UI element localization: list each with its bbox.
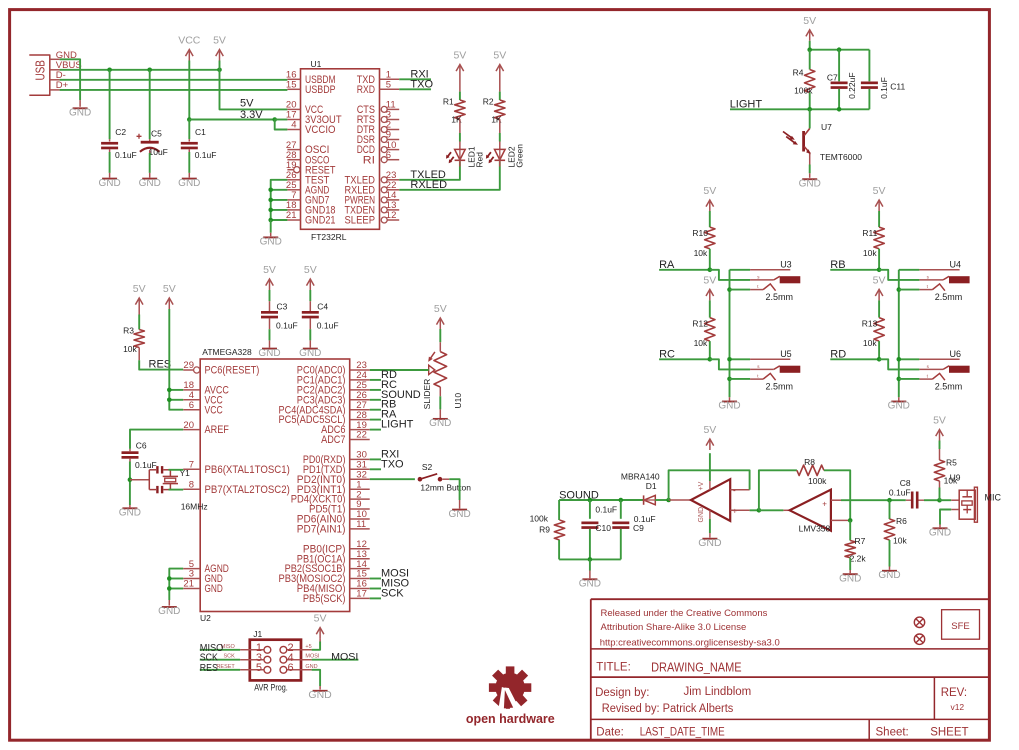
wire J1 RES	[200, 669, 240, 671]
power 5V VCC column	[168, 298, 170, 309]
svg-text:Red: Red	[475, 152, 485, 168]
svg-text:2.5mm: 2.5mm	[935, 292, 963, 302]
op-amp U8B LMV358	[790, 490, 831, 531]
svg-text:SLEEP: SLEEP	[345, 215, 376, 227]
svg-text:Released under the Creative Co: Released under the Creative Commons	[601, 608, 768, 619]
wire collector	[809, 109, 811, 128]
wire J1 +5	[312, 642, 321, 650]
wire LED2 cathode	[499, 160, 501, 166]
U2 pin 20 AREF	[183, 429, 200, 431]
svg-text:10k: 10k	[694, 248, 708, 258]
U1 pin 22 RXLED	[381, 187, 387, 193]
U1 pin 14 PWREN	[381, 197, 387, 203]
power 5V above C3	[269, 279, 271, 290]
J1 pin 1 MISO	[240, 649, 264, 651]
svg-text:R8: R8	[804, 457, 815, 467]
U1 pin 26 TEST	[287, 179, 300, 181]
wire C7 bottom	[838, 89, 840, 109]
wire sw RC	[730, 378, 751, 380]
U2 pin 23 PC0(ADC0)	[350, 369, 370, 371]
power 5V opamp1	[709, 439, 711, 450]
U1 pin 23 TXLED	[381, 177, 387, 183]
svg-text:17: 17	[356, 589, 367, 600]
svg-text:5V: 5V	[873, 185, 886, 197]
wire C7 top	[838, 50, 840, 82]
wire 5V arrow to VBUS	[219, 61, 221, 70]
svg-text:3.3V: 3.3V	[240, 109, 263, 121]
ground under S2	[459, 500, 461, 509]
wire AREF	[130, 430, 183, 449]
junction GND3	[167, 576, 172, 581]
svg-text:GND: GND	[799, 178, 821, 189]
svg-text:GND: GND	[579, 579, 601, 590]
circle-x marks	[914, 617, 924, 627]
svg-text:Sheet:: Sheet:	[876, 727, 909, 739]
wire 5V to FT232 VCC	[220, 70, 288, 110]
ground opamp1	[702, 538, 717, 540]
wire GND3	[169, 578, 183, 580]
ground under C3	[262, 348, 277, 350]
U1 pin 1 TXD	[380, 78, 400, 80]
svg-text:GND: GND	[119, 508, 141, 519]
wire R10 to RA	[709, 249, 711, 270]
svg-text:U3: U3	[780, 260, 792, 270]
svg-text:SCK: SCK	[381, 587, 404, 599]
resistor R8 100k	[797, 465, 824, 475]
wire PD2 to S2	[370, 478, 415, 480]
power VCC	[188, 50, 190, 61]
LED LED1 Red	[455, 149, 466, 159]
wire RB jack gnd verticals	[898, 270, 900, 397]
wire RB to jack tip	[879, 270, 919, 280]
svg-text:GND: GND	[308, 689, 332, 701]
U2 pin 6 VCC	[183, 409, 200, 411]
svg-text:0.1uF: 0.1uF	[195, 150, 217, 160]
svg-text:GND: GND	[158, 606, 180, 617]
ground jack column	[722, 401, 737, 403]
svg-text:Green: Green	[514, 144, 524, 168]
potentiometer U10 SLIDER	[434, 352, 447, 387]
U2 pin 24 PC1(ADC1)	[350, 379, 370, 381]
svg-text:GND: GND	[878, 570, 900, 581]
junction mic R5	[937, 498, 942, 503]
ground under C4	[303, 348, 318, 350]
resistor R12 10k	[705, 318, 715, 342]
connector J1 AVR Prog body	[250, 640, 301, 681]
svg-text:21: 21	[286, 210, 297, 221]
junction gnd RC sw	[727, 377, 732, 382]
svg-text:0.1uF: 0.1uF	[135, 460, 157, 470]
svg-text:Attribution Share-Alike 3.0 Li: Attribution Share-Alike 3.0 License	[601, 622, 747, 633]
svg-text:10k: 10k	[694, 338, 708, 348]
svg-text:ADC7: ADC7	[321, 434, 345, 446]
svg-text:VCCIO: VCCIO	[305, 124, 336, 136]
ground symbol under USB	[79, 100, 81, 107]
wire RA to jack tip	[710, 270, 750, 280]
svg-text:100k: 100k	[530, 514, 549, 524]
svg-text:VCC: VCC	[205, 404, 223, 416]
svg-text:LIGHT: LIGHT	[730, 99, 763, 111]
svg-text:10k: 10k	[863, 338, 877, 348]
wire to ground RC	[729, 397, 731, 400]
svg-text:5V: 5V	[434, 303, 447, 315]
U1 pin 2 DTR	[381, 127, 387, 133]
wire U1 AGND	[271, 189, 288, 191]
wire R12 to RC	[709, 341, 711, 359]
U1 pin 6 RI	[381, 157, 387, 163]
junction AVCC	[167, 388, 172, 393]
svg-text:29: 29	[183, 360, 194, 371]
wire J1 MOSI	[312, 659, 359, 661]
svg-text:5V: 5V	[314, 613, 327, 625]
svg-text:GND: GND	[698, 507, 705, 523]
junction gnd RD sw	[897, 377, 902, 382]
svg-text:2.2k: 2.2k	[850, 553, 867, 563]
svg-text:10uF: 10uF	[149, 147, 168, 157]
U1 pin 15 USBDP	[287, 88, 300, 90]
wire C1 to GND	[188, 149, 190, 152]
LED LED2 Green	[495, 149, 506, 159]
U1 pin 27 OSCI	[287, 149, 300, 151]
U2 pin 8 PB7(XTAL2TOSC2)	[183, 488, 200, 490]
U1 pin 20 VCC	[287, 108, 300, 110]
U5 sleeve barrel	[780, 366, 801, 373]
wire gnd rail sound	[559, 558, 621, 560]
capacitor C7	[831, 82, 848, 85]
wire AGND chain	[169, 569, 183, 600]
junction VBUS 5V	[217, 68, 222, 73]
capacitor C1	[181, 142, 198, 145]
wire opamp2 out	[759, 509, 784, 511]
svg-text:RES: RES	[200, 662, 218, 674]
wire C9 to rail	[620, 529, 622, 559]
svg-text:RES: RES	[149, 358, 172, 370]
svg-text:RXD: RXD	[357, 84, 375, 96]
svg-text:0.1uF: 0.1uF	[276, 320, 298, 330]
wire C2 to GND	[109, 149, 111, 152]
U2 pin 32 PD2(INT0)	[350, 478, 370, 480]
U1 pin 3 RTS	[381, 117, 387, 123]
U2 pin 30 PD0(RXD)	[350, 458, 370, 460]
U1 pin 12 SLEEP	[381, 217, 387, 223]
capacitor C5 polarized	[141, 141, 159, 144]
resistor R5 10k	[934, 460, 944, 481]
power 5V mic	[939, 430, 941, 441]
svg-text:21: 21	[183, 579, 194, 590]
wire sw RD	[899, 378, 920, 380]
wire net RA	[370, 419, 381, 421]
svg-text:Date:: Date:	[596, 727, 624, 739]
wire RA	[659, 269, 710, 271]
U1 pin 19 RESET	[287, 169, 293, 171]
wire SOUND to R9	[558, 500, 560, 520]
svg-text:DRAWING_NAME: DRAWING_NAME	[651, 660, 742, 674]
svg-text:GND: GND	[718, 401, 740, 412]
svg-text:R11: R11	[862, 228, 877, 238]
svg-text:GND: GND	[139, 178, 161, 189]
wire R4 bottom	[809, 93, 811, 110]
svg-text:TEMT6000: TEMT6000	[820, 152, 862, 162]
junction AGND	[268, 188, 273, 193]
U2 pin 18 AVCC	[183, 389, 200, 391]
wire 5V to R1	[459, 76, 461, 92]
junction LIGHT C7	[837, 107, 842, 112]
wire R3 red stub	[138, 348, 140, 361]
svg-text:22: 22	[356, 430, 367, 441]
wire C3 to gnd	[269, 318, 271, 329]
ground under C1	[182, 178, 197, 180]
U1 pin 18 GND18	[287, 209, 300, 211]
svg-text:5V: 5V	[803, 15, 816, 27]
resistor R11 10k	[874, 227, 884, 249]
svg-text:FT232RL: FT232RL	[311, 232, 347, 242]
wire J1 GND	[312, 670, 321, 686]
svg-text:LMV358: LMV358	[799, 524, 831, 534]
SFE logo box	[942, 610, 980, 640]
svg-text:5V: 5V	[163, 283, 176, 295]
svg-text:SHEET: SHEET	[930, 727, 968, 739]
wire VBUS rail	[60, 69, 220, 71]
connector USB	[29, 55, 50, 95]
svg-text:5V: 5V	[493, 50, 506, 62]
opamp1 gnd pin	[709, 510, 711, 519]
svg-text:LAST_DATE_TIME: LAST_DATE_TIME	[640, 727, 725, 739]
svg-text:R2: R2	[483, 97, 494, 107]
svg-text:D1: D1	[646, 481, 657, 491]
svg-text:2.5mm: 2.5mm	[766, 382, 794, 392]
svg-text:MIC: MIC	[985, 492, 1002, 502]
U1 pin 7 GND7	[287, 199, 300, 201]
junction gnd RD top	[897, 357, 902, 362]
wire R5 to mic	[939, 481, 941, 488]
svg-text:16MHz: 16MHz	[181, 502, 208, 512]
svg-text:R7: R7	[855, 536, 866, 546]
svg-text:6: 6	[288, 662, 294, 674]
wire C11 bottom	[868, 89, 870, 109]
junction rail C7	[837, 47, 842, 52]
wire 5V to C3	[269, 290, 271, 301]
svg-text:TXO: TXO	[410, 79, 433, 91]
IC U1 FT232RL body	[301, 69, 380, 230]
resistor R2 1K	[495, 100, 505, 119]
svg-text:C10: C10	[595, 523, 611, 533]
logo keyhole cut	[498, 687, 506, 711]
svg-text:0.1uF: 0.1uF	[317, 320, 339, 330]
svg-text:5: 5	[256, 662, 262, 674]
wire USB GND drop	[60, 59, 81, 100]
svg-text:GND21: GND21	[305, 215, 336, 227]
junction 3.3V VCCIO	[272, 117, 277, 122]
resistor R4 100k	[805, 70, 815, 93]
svg-text:PC6(RESET): PC6(RESET)	[205, 365, 260, 377]
wire net RC	[370, 389, 381, 391]
capacitor C3	[261, 311, 278, 314]
svg-text:R1: R1	[443, 97, 454, 107]
wire PB6	[169, 469, 184, 471]
U6 sleeve barrel	[949, 366, 970, 373]
USB pin VBUS	[50, 69, 60, 71]
wire sw RB	[899, 289, 920, 291]
svg-text:GND: GND	[299, 348, 321, 359]
U2 pin 13 PB1(OC1A)	[350, 558, 370, 560]
junction gnd rail	[588, 557, 593, 562]
slider wiper	[429, 365, 435, 374]
U1 pin 4 VCCIO	[287, 129, 300, 131]
svg-text:C9: C9	[633, 523, 644, 533]
microphone U9 MIC	[959, 490, 975, 519]
ground R6	[889, 540, 891, 567]
wire D1 to opamp1	[655, 499, 668, 501]
wire 3.3V to VCCIO	[275, 120, 288, 130]
U1 pin 28 OSCO	[287, 159, 300, 161]
U2 pin 10 PD6(AIN0)	[350, 518, 370, 520]
junction RD	[877, 357, 882, 362]
U2 pin 22 ADC7	[350, 439, 370, 441]
capacitor C6	[122, 451, 139, 454]
ground jack column	[891, 401, 906, 403]
svg-text:5V: 5V	[703, 185, 716, 197]
transistor U7 TEMT6000	[802, 131, 805, 152]
svg-text:15: 15	[286, 80, 297, 91]
resistor R3 10k	[134, 330, 144, 348]
wire RES	[139, 360, 183, 369]
opamp1 noninverting stub	[730, 509, 749, 511]
U2 pin 19 ADC6	[350, 429, 370, 431]
power 5V above R1	[459, 65, 461, 76]
wire U1 GND7	[271, 199, 288, 201]
junction interstage	[757, 508, 762, 513]
wire C1 drop	[188, 120, 190, 140]
U2 pin 28 PC5(ADC5SCL)	[350, 419, 370, 421]
U2 pin 15 PB3(MOSIOC2)	[350, 578, 370, 580]
svg-text:TXO: TXO	[381, 458, 404, 470]
wire VCC down to 3.3V rail	[188, 61, 190, 120]
svg-text:R12: R12	[692, 318, 708, 328]
svg-text:0.22uF: 0.22uF	[847, 72, 857, 98]
junction VBUS C2	[107, 68, 112, 73]
wire D- net	[60, 79, 288, 81]
svg-text:0.1uF: 0.1uF	[879, 77, 889, 99]
svg-text:5: 5	[386, 80, 391, 91]
wire C11 branch	[868, 50, 870, 82]
U2 pin 29 PC6(RESET)	[183, 369, 193, 371]
svg-text:R3: R3	[123, 326, 134, 336]
svg-text:Jim Lindblom: Jim Lindblom	[684, 686, 752, 698]
junction LIGHT R4	[807, 107, 812, 112]
wire net TXO	[370, 468, 381, 470]
wire opamp2 to C8	[841, 499, 906, 501]
junction 3.3V C1	[187, 117, 192, 122]
svg-text:5V: 5V	[213, 35, 226, 47]
wire slider to gnd	[439, 387, 441, 396]
open hardware logo gear	[489, 666, 531, 708]
U1 pin 10 DCD	[381, 147, 387, 153]
ground under U2 left	[168, 600, 170, 606]
wire + input	[750, 509, 759, 511]
svg-text:PB6(XTAL1TOSC1): PB6(XTAL1TOSC1)	[205, 464, 290, 476]
svg-text:12: 12	[386, 210, 397, 221]
junction GND21	[268, 218, 273, 223]
junction C9 top	[619, 498, 624, 503]
IC U2 ATMEGA328 body	[200, 359, 350, 612]
ground under U1	[270, 233, 272, 237]
USB pin D-	[50, 79, 60, 81]
power 5V light sensor	[809, 30, 811, 41]
svg-text:Revised by: Patrick Alberts: Revised by: Patrick Alberts	[602, 703, 734, 715]
svg-text:C6: C6	[136, 441, 147, 451]
audio jack U3 2.5mm	[730, 269, 751, 271]
wire RC to jack tip	[710, 359, 750, 369]
svg-text:SFE: SFE	[951, 621, 969, 632]
svg-text:10k: 10k	[863, 248, 877, 258]
ground sound rail	[589, 559, 591, 570]
opamp2 top input stub	[831, 499, 841, 501]
svg-text:5V: 5V	[933, 415, 946, 427]
svg-text:R5: R5	[946, 457, 957, 467]
resistor R1 1K	[455, 100, 465, 119]
wire RXD TXO	[399, 88, 431, 90]
J1 pin 3 SCK	[240, 659, 264, 661]
slider adjust arrow	[429, 352, 435, 360]
resistor R10 10k	[705, 227, 715, 249]
U2 pin 16 PB4(MISO)	[350, 588, 370, 590]
wire emitter to gnd	[809, 154, 811, 165]
wire LED1 cathode	[459, 160, 461, 166]
audio jack U5 2.5mm	[730, 358, 751, 360]
svg-text:8: 8	[189, 479, 194, 490]
ground J1	[319, 686, 321, 690]
svg-text:GND: GND	[839, 573, 861, 584]
resistor R6 10k	[884, 519, 894, 540]
junction VCC4	[167, 398, 172, 403]
wire U1 GND18	[271, 209, 288, 211]
capacitor C11	[861, 82, 878, 85]
power 5V J1	[319, 628, 321, 639]
wire C10 to rail	[589, 529, 591, 559]
U2 pin 5 AGND	[183, 568, 200, 570]
U2 pin 27 PC4(ADC4SDA)	[350, 409, 370, 411]
capacitor C2	[101, 142, 118, 145]
svg-text:GND: GND	[98, 178, 120, 189]
wire R2 to LED2	[499, 119, 501, 133]
wire net LIGHT	[370, 429, 381, 431]
svg-text:U1: U1	[311, 59, 322, 69]
wire C4 to gnd	[309, 318, 311, 329]
svg-text:U7: U7	[821, 122, 832, 132]
power 5V R11	[878, 200, 880, 211]
svg-text:VCC: VCC	[178, 35, 201, 47]
svg-text:GND: GND	[888, 401, 910, 412]
wire U1 gnd drop	[270, 220, 272, 233]
svg-text:R6: R6	[896, 516, 907, 526]
wire TXLED	[399, 161, 460, 180]
svg-text:+: +	[822, 499, 827, 508]
wire D+ net	[60, 89, 288, 91]
svg-text:+V: +V	[698, 481, 705, 490]
U2 pin 4 VCC	[183, 399, 200, 401]
wire to mic pin	[940, 499, 952, 501]
svg-text:GND: GND	[69, 108, 91, 119]
svg-text:PB7(XTAL2TOSC2): PB7(XTAL2TOSC2)	[205, 484, 290, 496]
wire net RD	[370, 379, 381, 381]
junction R6	[887, 498, 892, 503]
svg-text:5V: 5V	[133, 283, 146, 295]
wire net SCK	[370, 597, 381, 599]
U2 pin 11 PD7(AIN1)	[350, 528, 370, 530]
J1 pin 5 RESET	[240, 669, 264, 671]
svg-text:12mm Button: 12mm Button	[420, 483, 471, 493]
power 5V above R2	[499, 65, 501, 76]
